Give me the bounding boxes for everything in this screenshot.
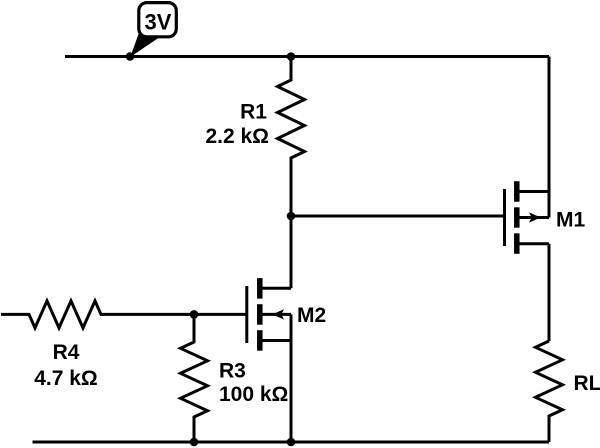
transistor M1	[505, 181, 550, 254]
junction: R1 top	[287, 52, 296, 61]
svg-text:3V: 3V	[145, 10, 172, 35]
svg-text:M1: M1	[556, 209, 585, 232]
resistor RL	[536, 341, 563, 442]
svg-text:4.7 kΩ: 4.7 kΩ	[34, 367, 98, 390]
wire: M2 drain to gate node	[290, 216, 293, 288]
wire: bottom rail	[33, 441, 550, 444]
resistor R1	[278, 57, 305, 217]
wire: rail drop to M1 drain	[548, 57, 551, 192]
junction: R3 bottom	[190, 438, 199, 447]
resistor R3	[181, 314, 208, 442]
transistor M2	[247, 278, 291, 351]
wire: M2 source to bottom rail	[290, 341, 293, 443]
svg-text:2.2 kΩ: 2.2 kΩ	[205, 125, 269, 148]
svg-text:R3: R3	[219, 360, 246, 383]
power flag 3V	[130, 3, 176, 57]
junction: gate node	[287, 212, 296, 221]
resistor R4	[1, 301, 194, 328]
wire: R3 node to M2 gate	[194, 313, 247, 316]
junction: R3 top	[190, 310, 199, 319]
svg-text:M2: M2	[297, 304, 326, 327]
svg-text:RL: RL	[574, 372, 600, 395]
svg-text:100 kΩ: 100 kΩ	[219, 383, 288, 406]
wire: M1 source to RL	[548, 244, 551, 341]
svg-text:R4: R4	[53, 341, 80, 364]
junction: M2 source at bottom rail	[287, 438, 296, 447]
junction: 3V tap dot	[126, 52, 135, 61]
wire: top 3V rail	[65, 55, 549, 58]
svg-text:R1: R1	[240, 101, 267, 124]
wire: gate node to M1 gate	[291, 215, 505, 218]
